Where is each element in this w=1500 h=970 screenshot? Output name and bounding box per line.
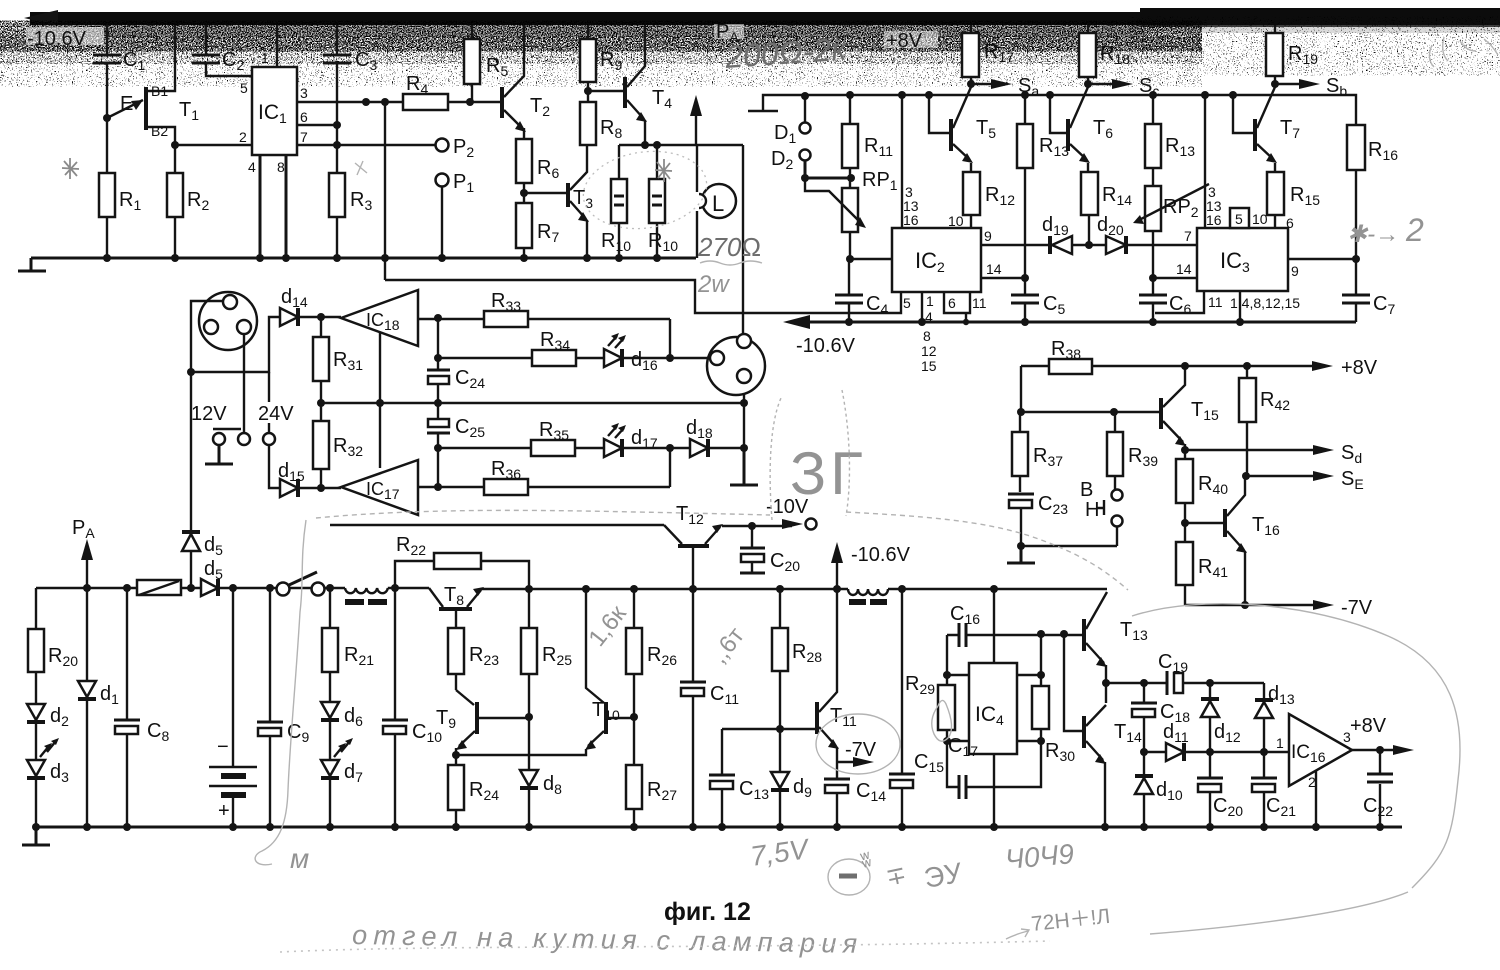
pencil speckle baseline	[280, 941, 1050, 952]
svg-text:5: 5	[903, 295, 911, 311]
svg-text:+8V: +8V	[1341, 357, 1378, 379]
node R40/R41/T16 base	[1181, 519, 1189, 527]
ground (top section, left)	[18, 258, 46, 271]
svg-text:-7V: -7V	[1341, 597, 1373, 619]
wire IC1 pin7 to P2	[297, 144, 435, 146]
resistor R21	[322, 588, 374, 702]
resistor R14	[1081, 163, 1132, 245]
svg-text:ЗГ: ЗГ	[790, 440, 867, 507]
LED d3	[27, 738, 69, 827]
arrow -10.6V (mid bus)	[831, 542, 911, 589]
wire mid rail (right block) with end hook	[748, 95, 1356, 125]
wire -7V output	[1185, 597, 1373, 619]
IC U1 (IC1 timer)	[252, 67, 297, 155]
terminal P2	[436, 136, 475, 160]
resistor R23	[448, 628, 499, 690]
resistor R17	[962, 25, 1014, 84]
wire IC16 output +8V	[1350, 715, 1414, 755]
svg-text:L: L	[712, 191, 724, 216]
connector XLR (input)	[199, 292, 257, 350]
svg-text:фиг. 12: фиг. 12	[664, 898, 751, 926]
svg-text:7: 7	[300, 129, 308, 145]
resistor R13 (first)	[1017, 95, 1069, 278]
wire IC2 pin14	[981, 261, 1029, 282]
node C18/d11/d10	[1140, 748, 1148, 756]
transistor T3	[568, 145, 593, 258]
svg-text:Ч0Ч9: Ч0Ч9	[1004, 838, 1075, 875]
capacitor C20 (mid)	[740, 526, 800, 574]
svg-text:2: 2	[1405, 212, 1424, 248]
svg-text:-10.6V: -10.6V	[796, 335, 856, 357]
node d19/d20/R14	[1085, 241, 1093, 249]
svg-text:9: 9	[984, 228, 992, 244]
wire main bus (regulated segment)	[482, 588, 1107, 590]
capacitor C2	[192, 25, 252, 76]
IC U4 (IC4)	[969, 589, 1017, 827]
capacitor C7	[1342, 259, 1395, 322]
node d13/C21/IC16 in	[1260, 748, 1268, 756]
wire lamp-loop (drop from pin3 line to IC2 pin5 line)	[385, 280, 742, 313]
svg-text:B: B	[1080, 479, 1093, 501]
IC3 pin5 box and pin10	[1230, 208, 1268, 228]
svg-text:3: 3	[300, 85, 308, 101]
svg-text:+: +	[218, 800, 230, 822]
pin labels IC1	[239, 50, 308, 175]
wire battery bus (left segment)	[36, 587, 345, 589]
svg-text:5: 5	[1235, 211, 1243, 227]
svg-text:−: −	[217, 736, 229, 758]
node coil/C10/R22	[391, 584, 399, 592]
svg-text:16: 16	[1206, 212, 1222, 228]
pencil circle around -7V	[816, 714, 900, 774]
amplifier IC17	[321, 460, 418, 515]
wire IC4 left-bottom pin	[947, 740, 969, 742]
diode d2	[27, 704, 69, 760]
resistor R18	[1079, 25, 1130, 84]
wire x670 feedback verticals	[669, 319, 671, 487]
resistor R38	[1049, 338, 1092, 374]
diode d6	[321, 702, 363, 760]
wire IC2 pins 3,13,16 to rail	[902, 95, 919, 228]
inductor L2 (main bus)	[848, 589, 888, 605]
svg-text:6: 6	[1286, 215, 1294, 231]
capacitor C9	[257, 588, 309, 827]
wire IC4 right pins	[1017, 675, 1041, 741]
pencil annotation x->2 (right)	[1347, 212, 1424, 248]
capacitor C14	[824, 762, 886, 827]
resistor R24	[448, 755, 499, 827]
amplifier IC18	[341, 290, 418, 346]
resistor R2	[167, 145, 209, 258]
wire mid horizontal y403	[321, 402, 744, 404]
resistor R40	[1176, 450, 1228, 523]
diode d11	[1144, 721, 1289, 761]
label backing patches	[26, 27, 104, 45]
pencil outline (top run to ZG and right)	[316, 510, 1128, 590]
switch S1	[277, 572, 325, 596]
svg-text:B1: B1	[151, 83, 168, 99]
transistor T14	[1084, 683, 1142, 827]
transistor T16	[1185, 476, 1280, 605]
svg-text:1: 1	[926, 293, 934, 309]
resistor R19	[1266, 25, 1318, 84]
wire T9/T10 emitter link	[456, 749, 586, 755]
transistor T15	[1161, 366, 1219, 450]
svg-text:7: 7	[1184, 228, 1192, 244]
wire Sd output	[1181, 442, 1362, 466]
svg-text:-10.6V: -10.6V	[27, 28, 87, 50]
pencil annotation 270Ω / 2W	[697, 232, 762, 298]
resistor R11	[842, 95, 893, 188]
resistor R22 (bypass of T8)	[395, 534, 529, 589]
resistor R3	[329, 173, 372, 258]
node d17 row / x670	[666, 444, 674, 452]
pencil dotted ellipse around R10	[578, 144, 711, 237]
wire T15 base line	[1021, 411, 1160, 413]
resistor R34	[438, 329, 604, 366]
scan noise band under bar	[26, 25, 1146, 37]
svg-text:5: 5	[240, 80, 248, 96]
arrow Pa output (up)	[690, 21, 739, 145]
node RP2/IC3 pin14	[1149, 274, 1157, 282]
wire C23/button common	[1021, 527, 1117, 546]
diode d13	[1255, 683, 1295, 752]
capacitor C4	[835, 259, 888, 322]
svg-text:B2: B2	[151, 123, 168, 139]
wire ground column right of XLR2	[743, 382, 745, 448]
node T9e/R24	[452, 751, 460, 759]
terminal D1	[774, 96, 811, 146]
diode d9	[771, 729, 812, 827]
diode d8	[520, 717, 562, 827]
capacitor C19	[1158, 651, 1264, 695]
svg-text:E: E	[120, 93, 133, 115]
svg-text:-10.6V: -10.6V	[851, 544, 911, 566]
ground rail of top section	[31, 257, 696, 260]
lamp L	[692, 145, 736, 258]
diode d20	[1089, 214, 1197, 254]
battery B	[209, 588, 257, 827]
capacitor C20 (output)	[1197, 752, 1243, 827]
svg-text:1,4,8,12,15: 1,4,8,12,15	[1230, 295, 1300, 311]
svg-text:H: H	[1085, 499, 1099, 521]
capacitor C3	[323, 25, 377, 173]
wire IC3 pin9	[1288, 255, 1360, 279]
svg-text:14: 14	[986, 261, 1002, 277]
LED d17	[604, 423, 690, 457]
terminal P1	[436, 171, 475, 258]
capacitor C1	[93, 25, 145, 118]
node R31/R32	[317, 399, 325, 407]
svg-text:2: 2	[239, 129, 247, 145]
diode d5 (vertical)	[182, 372, 223, 588]
svg-text:1: 1	[261, 50, 269, 66]
pencil outline loop (bottom right)	[1132, 604, 1460, 934]
terminal D2	[771, 148, 811, 172]
wire T13/T14 common base	[1064, 634, 1082, 731]
wire vertical drop x385 to lamp-loop	[384, 102, 386, 280]
resistor R20	[28, 588, 78, 704]
wire IC2 pin2	[850, 258, 892, 260]
transistor T6 with base wire	[1050, 87, 1113, 163]
capacitor C25	[427, 416, 485, 440]
svg-text:ЭУ: ЭУ	[922, 857, 965, 894]
svg-text:9: 9	[1291, 263, 1299, 279]
top rail left arrowhead	[24, 10, 58, 26]
node pin3/vertical drop	[381, 98, 389, 106]
diode d5 (horizontal)	[201, 558, 223, 596]
transistor T1 (UJT)	[107, 25, 199, 145]
node pin7/C3	[333, 141, 341, 149]
resistor R5	[464, 25, 508, 102]
junctions on bottom rail	[32, 823, 1384, 831]
IC U2 (IC2)	[892, 228, 981, 292]
pencil scribble top right corner	[1429, 37, 1498, 67]
transistor T11	[817, 589, 857, 762]
wire output row to C19	[1106, 682, 1166, 684]
resistor R7	[516, 193, 559, 258]
transistor T10	[585, 589, 634, 750]
capacitor C10	[382, 588, 442, 827]
capacitor C6	[1139, 278, 1191, 322]
svg-text:8: 8	[277, 159, 285, 175]
resistor R41	[1176, 523, 1228, 605]
node B2/R2 junction	[171, 141, 179, 149]
wire lamp-box top	[619, 144, 743, 146]
svg-text:+8V: +8V	[1350, 715, 1387, 737]
node on pin3 line	[362, 98, 370, 106]
diode d19	[1042, 214, 1089, 254]
arrow +8V	[1312, 357, 1378, 379]
transistor T9	[436, 690, 529, 755]
resistor R29	[905, 673, 955, 741]
potentiometer RP2	[1133, 184, 1209, 278]
-10.6V rail with left arrow	[783, 315, 1356, 357]
wire T4 base	[588, 90, 623, 92]
arrow Pa (battery)	[72, 517, 95, 588]
wire IC1 pin2	[175, 144, 252, 146]
node d16 row / x670	[666, 354, 674, 362]
wire common vertical x438	[437, 318, 439, 487]
capacitor C8	[114, 588, 169, 827]
IC3 bottom stubs	[1155, 291, 1300, 322]
wire IC1 pin6	[297, 124, 337, 126]
fuse	[137, 580, 181, 595]
wire R38 down to base line	[1020, 366, 1022, 412]
svg-text:12V: 12V	[191, 403, 227, 425]
ground (bottom left)	[22, 827, 50, 845]
IC2 bottom pin stubs	[742, 292, 987, 374]
svg-text:-7V: -7V	[845, 739, 877, 761]
resistor R12	[948, 163, 1015, 229]
resistor R15	[1267, 163, 1320, 231]
wire IC1 pin3 line	[297, 101, 403, 103]
resistor R10 (right)	[648, 145, 678, 258]
node R10b top	[653, 141, 661, 149]
diode d10	[1135, 752, 1183, 827]
transistor T5 with base wire	[929, 87, 996, 163]
capacitor C21	[1251, 752, 1296, 827]
wire T11 base line	[722, 728, 815, 730]
capacitor C13	[709, 729, 769, 827]
ground (12V terminal)	[205, 445, 233, 464]
junctions on mid rail	[801, 91, 1237, 100]
junctions on -10.6V rail	[845, 318, 1244, 326]
junctions on main bus	[525, 585, 998, 593]
node T12e/C20	[748, 522, 756, 530]
wire C16 left / R29	[947, 635, 969, 675]
transistor T7 with base wire	[1233, 87, 1300, 163]
diode d15	[269, 445, 321, 497]
svg-text:8: 8	[923, 328, 931, 344]
svg-text:+8V: +8V	[886, 30, 923, 52]
wire IC3 pin14	[1153, 261, 1197, 278]
top scan black bar	[30, 12, 1500, 25]
resistor R37	[1012, 412, 1063, 492]
resistor R25	[521, 589, 572, 717]
svg-text:12: 12	[921, 343, 937, 359]
IC U3 (IC3)	[1197, 228, 1288, 291]
potentiometer RP1	[805, 169, 898, 259]
ground (C23)	[1007, 546, 1035, 563]
transistor T12	[664, 503, 723, 589]
transistor T2	[502, 25, 550, 132]
LED d16	[604, 333, 710, 373]
svg-text:6: 6	[300, 109, 308, 125]
node d14/R31/IC18	[317, 313, 325, 321]
pencil mark near R3	[355, 161, 367, 175]
pushbutton B/H	[1080, 479, 1123, 527]
capacitor C5	[1011, 278, 1065, 322]
svg-text:15: 15	[921, 358, 937, 374]
inductor L1 (battery bus)	[345, 588, 429, 605]
junctions on battery bus	[83, 584, 334, 592]
svg-text:✱-→: ✱-→	[1347, 221, 1399, 248]
pencil phi mark	[932, 700, 952, 741]
svg-text:11: 11	[972, 295, 987, 311]
node R8/R9/T4 base	[584, 87, 592, 95]
node pin6/C3	[333, 121, 341, 129]
wire +8V line (right mid)	[1021, 365, 1320, 367]
wire bias vertical x380	[379, 332, 381, 468]
node R28/T11 base/d9	[776, 725, 784, 733]
resistor R36	[418, 458, 670, 495]
node RP1/IC2 pin2	[846, 255, 854, 263]
resistor R31	[313, 317, 363, 403]
node d12/C20/d11 row	[1206, 748, 1214, 756]
node d18/ground column	[740, 444, 748, 452]
resistor R16	[1347, 125, 1398, 259]
wire XLR shell loop	[191, 301, 280, 372]
ground rail (bottom)	[36, 826, 1402, 829]
svg-text:14: 14	[1176, 261, 1192, 277]
resistor R39	[1107, 412, 1158, 489]
wire IC3 pins 3,13,16 to rail	[1205, 95, 1222, 228]
node R4/R5	[466, 98, 474, 106]
svg-text:10: 10	[1252, 211, 1268, 227]
wire IC1 pins 4,8 to ground rail	[260, 155, 286, 258]
node R18/T6c, arrow Sc	[1084, 75, 1159, 99]
LED d7	[321, 738, 363, 827]
wire -7V (T11 emitter)	[837, 739, 877, 767]
node R25/T9 base/d8	[525, 713, 533, 721]
node C19/d12	[1206, 679, 1214, 687]
pencil annotation ->72N (bottom right)	[1006, 905, 1111, 939]
wire T12 emitter to -10V terminal	[722, 496, 817, 530]
pencil star near R10	[655, 159, 672, 182]
capacitor C23	[1008, 493, 1068, 546]
node R17/T5c, arrow Sa	[967, 75, 1039, 99]
wire IC2 pin9 line	[981, 228, 1049, 245]
wire IC1 pin1 to top rail	[276, 25, 278, 67]
svg-text:1: 1	[1276, 735, 1284, 751]
wire D2 to RP1 wiper	[805, 161, 852, 178]
svg-text:2w: 2w	[697, 271, 730, 298]
svg-text:4: 4	[248, 159, 256, 175]
resistor R33	[418, 290, 670, 327]
capacitor C17 (bottom bypass)	[947, 735, 1041, 799]
node: C1/R1/T1-E junction	[103, 114, 111, 122]
resistor R10 (left)	[601, 145, 631, 258]
resistor R8	[580, 91, 622, 145]
node T13e/T14c output	[1102, 679, 1110, 687]
svg-text:11: 11	[1208, 294, 1223, 310]
capacitor C18	[1131, 683, 1190, 752]
node R19/T7c, arrow Sb	[1271, 75, 1347, 99]
resistor R32	[313, 403, 363, 488]
wire T12 collector line	[330, 524, 664, 526]
pencil outline loop (left/bottom)	[255, 520, 306, 865]
resistor R27	[626, 717, 677, 827]
resistor R13 (second)	[1145, 95, 1195, 186]
svg-text:270Ω: 270Ω	[697, 232, 761, 262]
transistor T8 (series)	[429, 584, 484, 628]
ground (d18)	[730, 448, 758, 485]
node R26/T10 base/R27	[630, 713, 638, 721]
diode d1	[78, 588, 119, 827]
connector XLR (output)	[707, 334, 765, 395]
transistor T13	[1084, 592, 1148, 683]
node R32/d15/IC17	[317, 484, 325, 492]
pencil annotation ZG	[770, 390, 867, 520]
resistor R42	[1239, 366, 1290, 476]
resistor R26	[626, 589, 677, 717]
capacitor C11	[680, 589, 739, 827]
svg-text:24V: 24V	[258, 403, 294, 425]
capacitor C16 (top bypass)	[947, 603, 1083, 647]
pencil annotation (-)+OU	[828, 849, 965, 895]
pencil star left margin	[62, 158, 79, 179]
node T4e	[641, 141, 649, 149]
svg-text:м: м	[290, 843, 309, 874]
resistor R28	[772, 589, 822, 729]
diode d18	[686, 417, 744, 457]
svg-text:6: 6	[948, 295, 956, 311]
capacitor C22	[1363, 750, 1393, 827]
diode d12	[1201, 683, 1241, 752]
resistor R4	[403, 73, 501, 110]
resistor R9	[580, 25, 622, 91]
wire T3 base	[524, 192, 566, 194]
resistor R1	[99, 118, 141, 258]
svg-text:16: 16	[903, 212, 919, 228]
transistor T4	[625, 25, 672, 145]
capacitor C24	[427, 367, 485, 391]
resistor R30	[1032, 634, 1075, 764]
wire Se output	[1242, 468, 1364, 492]
resistor R35	[438, 419, 604, 456]
terminals 12V / 24V	[191, 334, 294, 445]
